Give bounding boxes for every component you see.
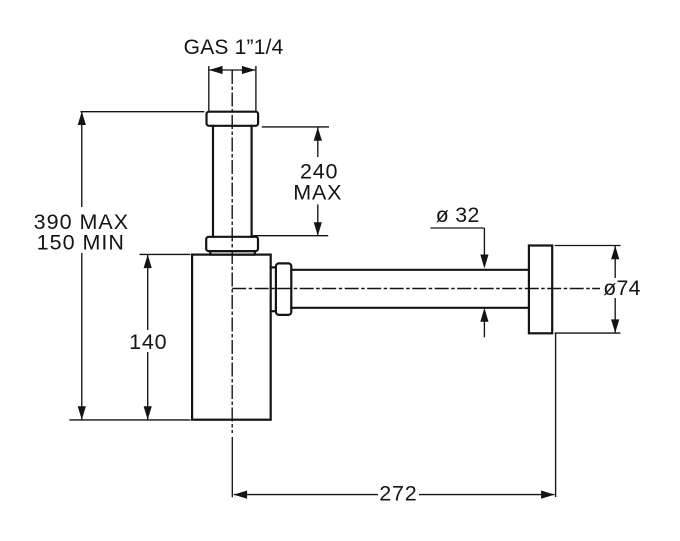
diameter 74 dimension top extension line: [555, 245, 621, 247]
svg-text:150 MIN: 150 MIN: [37, 231, 125, 255]
140 dimension top extension line: [140, 253, 191, 255]
diameter 32 leader horizontal line: [431, 227, 485, 229]
GAS dimension left arrowhead: [209, 66, 223, 74]
240 dimension line upper segment: [317, 127, 319, 157]
240 dimension down arrowhead: [314, 222, 322, 236]
svg-text:272: 272: [379, 482, 417, 506]
horizontal pipe bottom edge: [291, 307, 529, 309]
diameter 32 up arrowhead at pipe bottom: [480, 308, 488, 322]
140 dimension down arrowhead: [144, 406, 152, 420]
140 dimension line lower segment: [147, 352, 149, 420]
svg-text:ø74: ø74: [603, 276, 641, 300]
272 dimension line left segment: [234, 494, 378, 496]
390 MAX /150 MIN dimension top extension line: [81, 111, 205, 113]
diameter 32 leader vertical line: [483, 228, 485, 256]
horizontal centerline of outlet pipe: [232, 288, 600, 290]
272 dimension line right segment: [419, 494, 554, 496]
top coupling nut: [207, 112, 259, 126]
390 dimension line lower segment: [81, 253, 83, 420]
svg-text:MAX: MAX: [293, 180, 342, 204]
240 dimension line lower segment: [317, 205, 319, 236]
collar under lower nut: [210, 251, 255, 255]
140 dimension up arrowhead: [144, 255, 152, 269]
inlet pipe right wall: [251, 126, 253, 237]
272 dimension right arrowhead: [541, 491, 555, 499]
horizontal pipe top edge: [291, 269, 529, 271]
272 dimension left arrowhead: [234, 491, 248, 499]
svg-text:GAS 1”1/4: GAS 1”1/4: [184, 36, 284, 59]
body bottom extension line: [69, 419, 190, 421]
diameter 32 down arrowhead at pipe top: [480, 255, 488, 269]
outlet nut: [276, 263, 291, 315]
outlet stub top edge: [271, 266, 276, 268]
outlet stub bottom edge: [271, 310, 276, 312]
390 dimension up arrowhead: [78, 112, 86, 126]
GAS dimension left extension line: [208, 66, 210, 111]
diameter 74 dimension line lower segment: [614, 298, 616, 333]
272 dimension right extension line: [555, 333, 557, 497]
diameter 74 dimension bottom extension line: [555, 332, 621, 334]
272 dimension left extension line: [231, 437, 233, 497]
lower coupling nut: [206, 237, 258, 251]
svg-text:140: 140: [129, 330, 167, 354]
140 dimension line upper segment: [147, 255, 149, 330]
diameter 32 up arrow shaft below pipe: [483, 321, 485, 337]
240 MAX dimension bottom extension line: [253, 235, 328, 237]
diameter 74 up arrowhead: [611, 246, 619, 260]
svg-text:ø 32: ø 32: [436, 203, 480, 227]
wall flange: [529, 246, 552, 334]
diameter 74 down arrowhead: [611, 319, 619, 333]
240 dimension up arrowhead: [314, 127, 322, 141]
inlet pipe left wall: [212, 126, 214, 237]
240 MAX dimension top extension line: [262, 126, 329, 128]
GAS dimension right arrowhead: [242, 66, 256, 74]
trap body: [192, 255, 271, 420]
diameter 74 dimension line upper segment: [614, 246, 616, 278]
GAS dimension right extension line: [255, 66, 257, 111]
GAS dimension line: [209, 69, 255, 71]
vertical centerline of inlet pipe and body: [231, 70, 233, 433]
390 dimension line upper segment: [81, 112, 83, 208]
390 dimension down arrowhead: [78, 406, 86, 420]
